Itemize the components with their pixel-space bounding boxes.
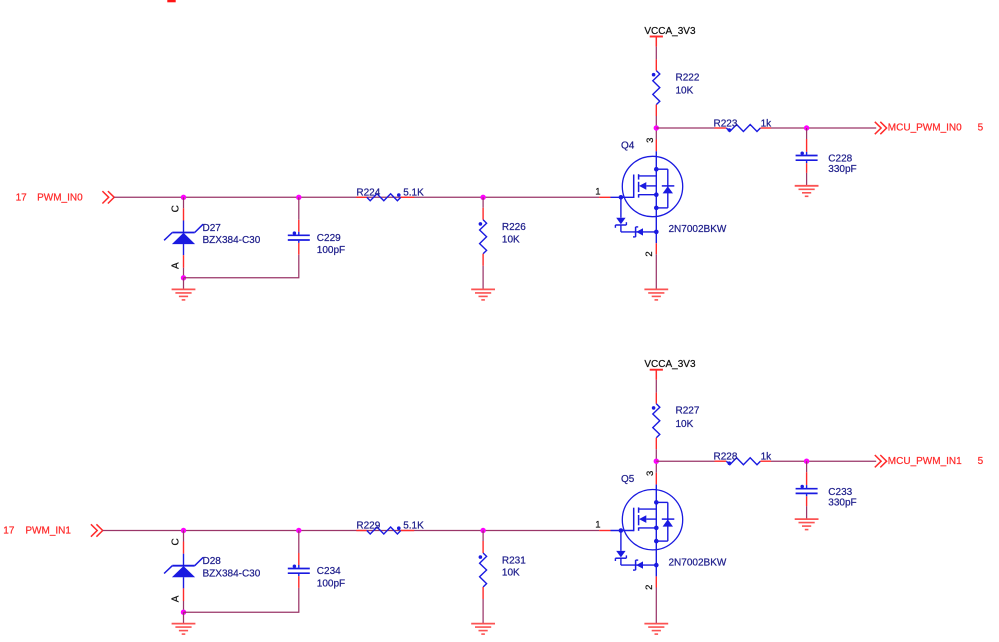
svg-text:1: 1 — [595, 186, 600, 197]
svg-text:10K: 10K — [676, 419, 694, 430]
svg-text:R226: R226 — [502, 222, 526, 233]
svg-text:A: A — [170, 262, 181, 269]
svg-text:PWM_IN1: PWM_IN1 — [25, 526, 71, 537]
svg-text:5.1K: 5.1K — [403, 187, 424, 198]
svg-text:R228: R228 — [714, 452, 738, 463]
svg-text:C228: C228 — [828, 154, 852, 165]
svg-text:R222: R222 — [676, 73, 700, 84]
svg-text:R229: R229 — [356, 521, 380, 532]
svg-text:17: 17 — [3, 526, 15, 537]
svg-text:1: 1 — [595, 520, 600, 531]
svg-text:10K: 10K — [502, 568, 520, 579]
svg-text:R231: R231 — [502, 555, 526, 566]
svg-text:1k: 1k — [761, 452, 773, 463]
svg-text:C: C — [170, 538, 181, 545]
svg-text:10K: 10K — [676, 86, 694, 97]
svg-text:3: 3 — [645, 138, 656, 143]
svg-text:BZX384-C30: BZX384-C30 — [203, 568, 261, 579]
svg-text:R227: R227 — [676, 406, 700, 417]
svg-text:1k: 1k — [761, 118, 773, 129]
svg-text:5: 5 — [978, 123, 984, 134]
svg-text:R224: R224 — [356, 187, 380, 198]
svg-text:5: 5 — [978, 456, 984, 467]
svg-text:MCU_PWM_IN0: MCU_PWM_IN0 — [888, 123, 962, 134]
svg-text:330pF: 330pF — [828, 164, 856, 175]
svg-text:2N7002BKW: 2N7002BKW — [669, 557, 727, 568]
svg-text:Q4: Q4 — [621, 141, 635, 152]
svg-text:D27: D27 — [203, 223, 222, 234]
svg-text:Q5: Q5 — [621, 474, 635, 485]
svg-text:D28: D28 — [203, 556, 222, 567]
svg-text:C229: C229 — [317, 233, 341, 244]
svg-text:VCCA_3V3: VCCA_3V3 — [644, 26, 696, 37]
svg-text:100pF: 100pF — [317, 245, 345, 256]
svg-text:2: 2 — [644, 585, 655, 590]
svg-text:3: 3 — [645, 471, 656, 476]
svg-text:MCU_PWM_IN1: MCU_PWM_IN1 — [888, 456, 962, 467]
svg-text:100pF: 100pF — [317, 578, 345, 589]
svg-text:C: C — [170, 205, 181, 212]
svg-text:A: A — [170, 595, 181, 602]
svg-text:R223: R223 — [714, 118, 738, 129]
svg-text:C233: C233 — [828, 487, 852, 498]
svg-text:5.1K: 5.1K — [403, 521, 424, 532]
svg-text:VCCA_3V3: VCCA_3V3 — [644, 359, 696, 370]
svg-text:10K: 10K — [502, 235, 520, 246]
svg-text:2N7002BKW: 2N7002BKW — [669, 224, 727, 235]
svg-text:PWM_IN0: PWM_IN0 — [37, 193, 83, 204]
svg-text:2: 2 — [644, 251, 655, 256]
svg-text:BZX384-C30: BZX384-C30 — [203, 235, 261, 246]
svg-text:17: 17 — [16, 193, 28, 204]
svg-text:C234: C234 — [317, 566, 341, 577]
svg-text:330pF: 330pF — [828, 497, 856, 508]
